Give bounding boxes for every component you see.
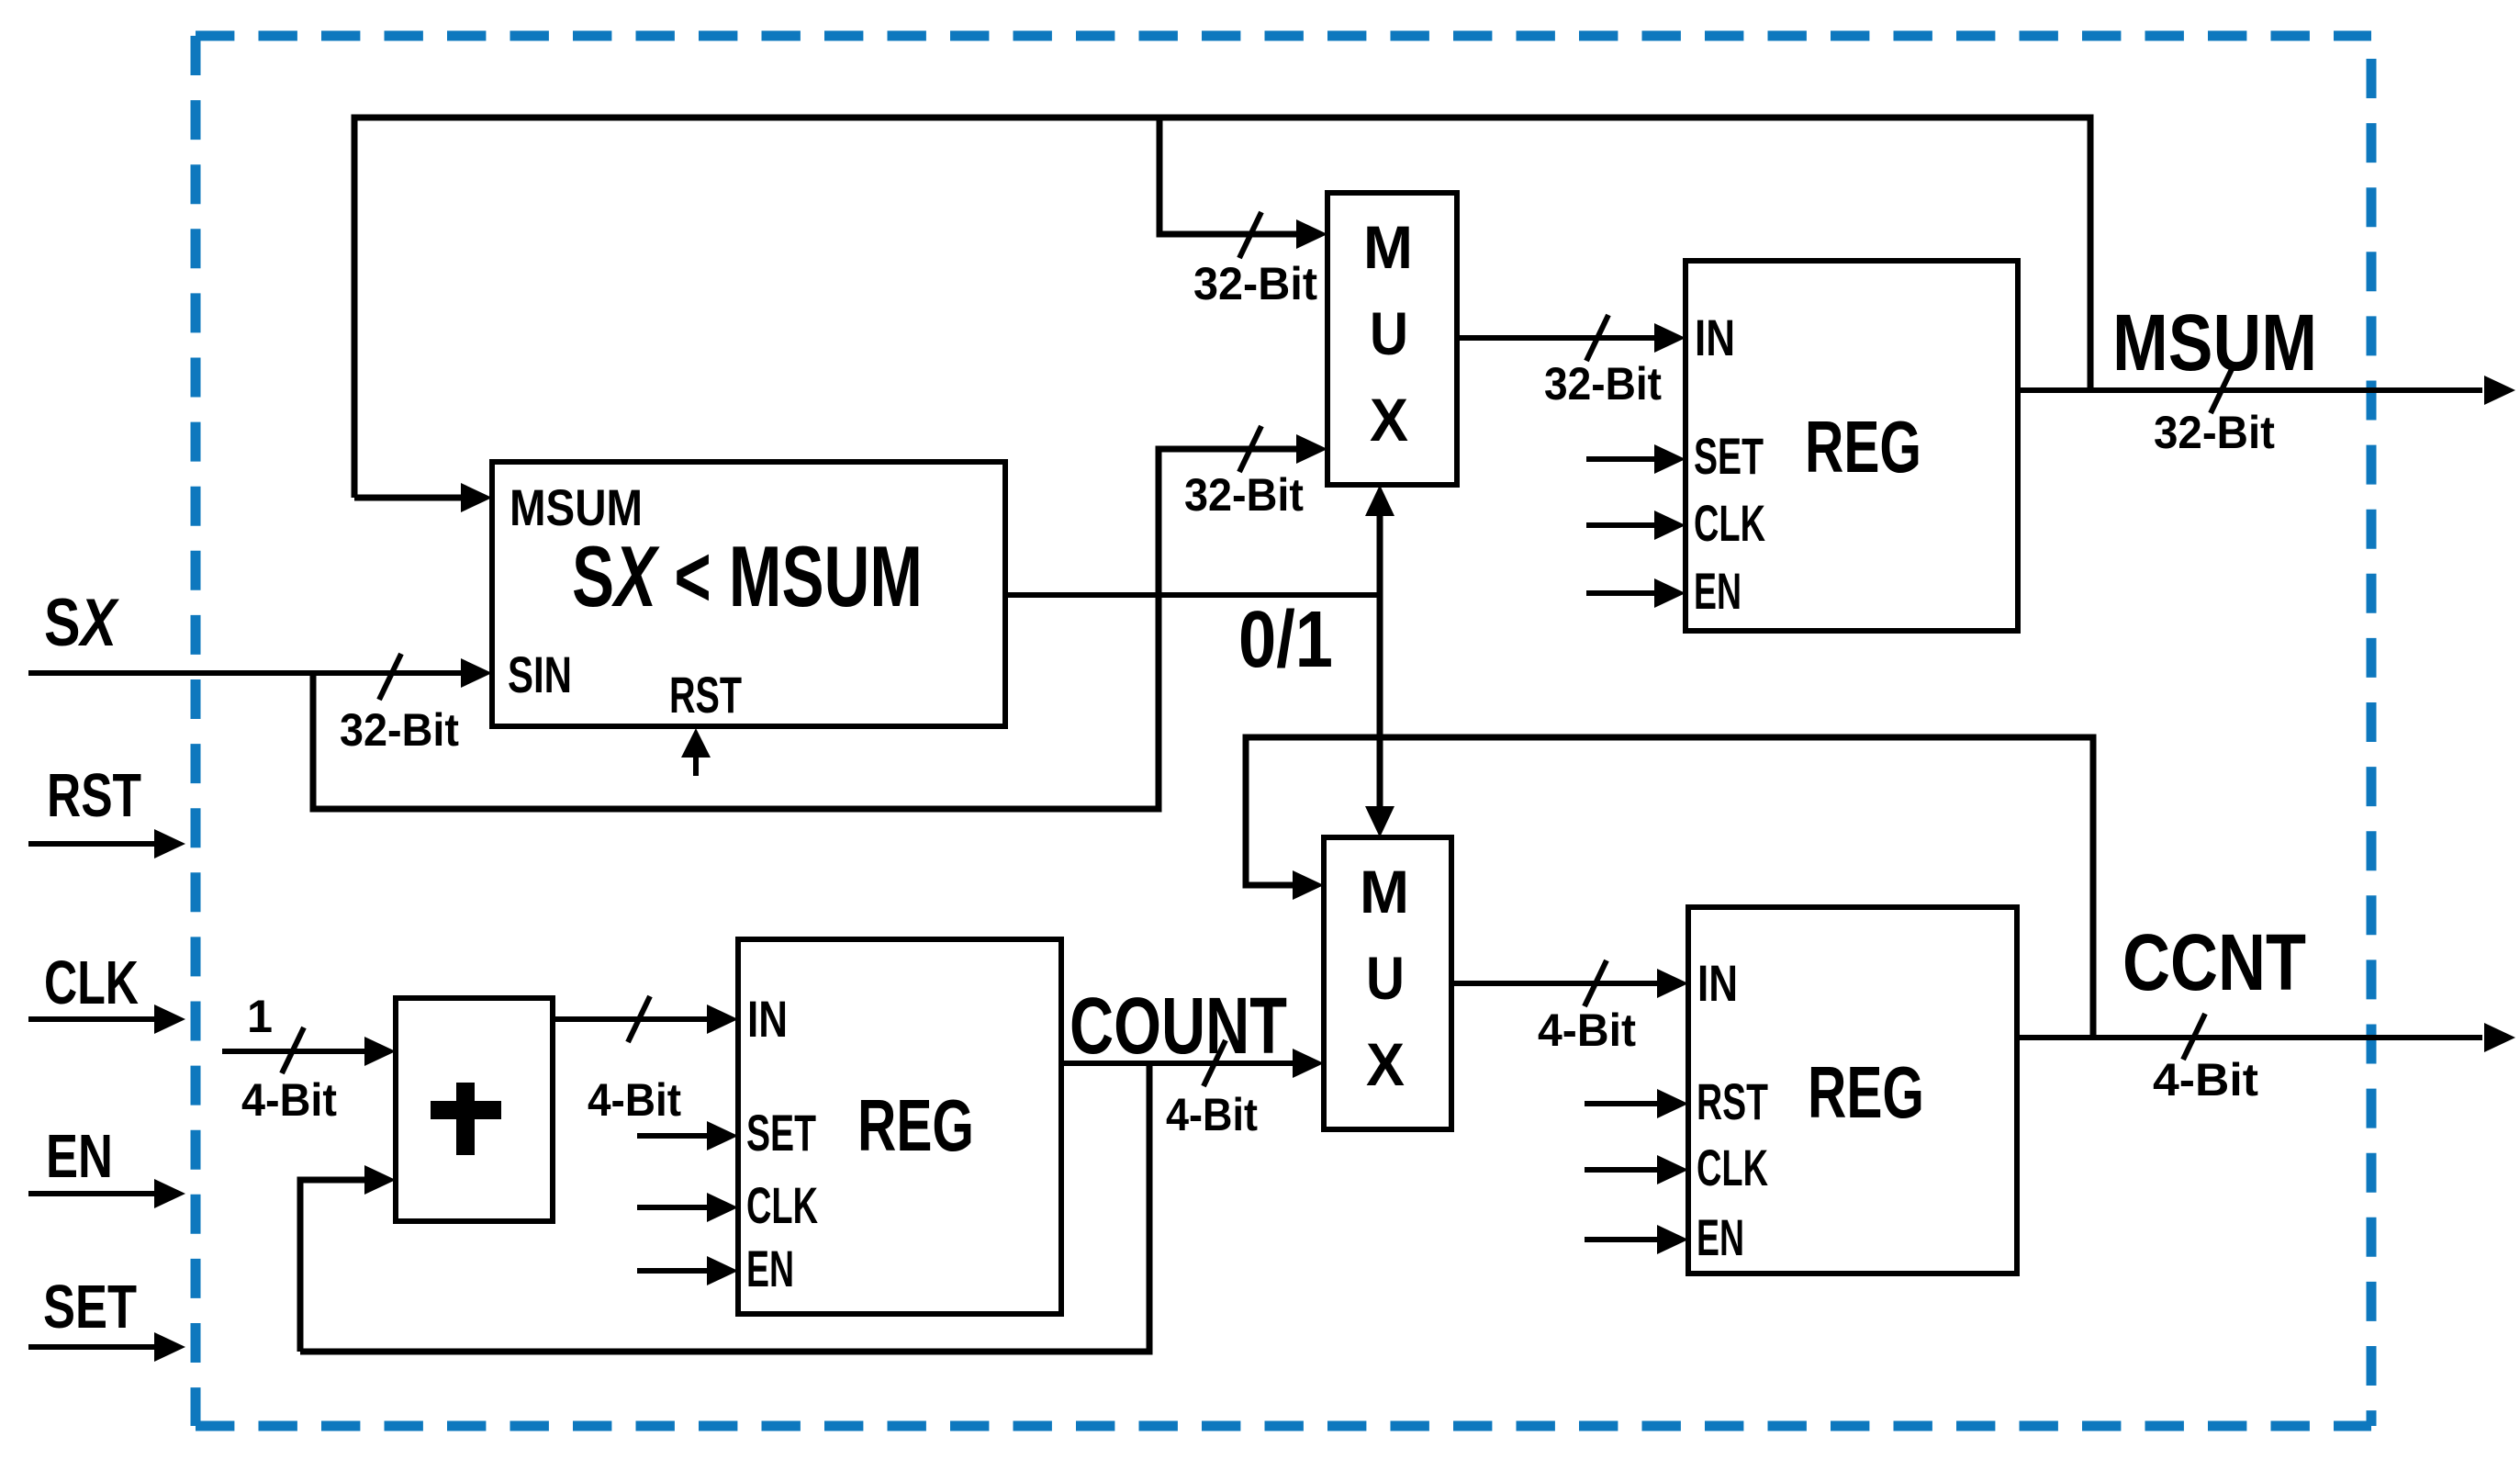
MUX2 output wire to REG3 IN bbox=[1451, 981, 1659, 986]
REG3 EN control arrow bbox=[1585, 1237, 1659, 1242]
svg-text:SET: SET bbox=[43, 1273, 137, 1341]
slash: SX bus width bbox=[379, 654, 401, 700]
svg-text:X: X bbox=[1366, 1030, 1405, 1098]
svg-text:RST: RST bbox=[1697, 1072, 1768, 1130]
slash: adder in bus width bbox=[282, 1027, 304, 1073]
input RST arrow bbox=[28, 841, 156, 847]
slash: MSUM out bus width bbox=[2211, 367, 2233, 413]
svg-text:M: M bbox=[1360, 858, 1409, 926]
svg-text:32-Bit: 32-Bit bbox=[1184, 469, 1304, 521]
svg-text:M: M bbox=[1363, 213, 1413, 281]
svg-text:SX < MSUM: SX < MSUM bbox=[572, 528, 923, 624]
svg-text:SET: SET bbox=[1694, 427, 1764, 485]
svg-text:EN: EN bbox=[1694, 562, 1742, 620]
svg-text:U: U bbox=[1366, 944, 1405, 1012]
svg-text:4-Bit: 4-Bit bbox=[241, 1074, 337, 1126]
CCNT feedback wire to MUX2 in1 bbox=[1246, 737, 2093, 1038]
REG3 CLK control arrow bbox=[1585, 1167, 1659, 1173]
svg-text:CLK: CLK bbox=[1694, 494, 1765, 552]
MUX U5 box (lower) bbox=[1324, 837, 1451, 1129]
input CLK arrow bbox=[28, 1016, 156, 1022]
select line to both MUXes bbox=[1377, 512, 1383, 810]
slash: MUX1 in2 bus width bbox=[1239, 426, 1261, 472]
REG1 CLK control arrow bbox=[1586, 522, 1656, 528]
svg-text:RST: RST bbox=[47, 761, 141, 830]
adder input 1 wire bbox=[222, 1049, 366, 1054]
svg-text:32-Bit: 32-Bit bbox=[2154, 407, 2275, 458]
svg-text:EN: EN bbox=[746, 1240, 794, 1297]
MUX1 output wire to REG1 IN bbox=[1457, 335, 1656, 341]
slash: CCNT bus width bbox=[2183, 1014, 2205, 1060]
svg-text:32-Bit: 32-Bit bbox=[1193, 258, 1317, 309]
REG2 CLK control arrow bbox=[637, 1205, 709, 1210]
svg-text:32-Bit: 32-Bit bbox=[1544, 358, 1662, 410]
svg-text:IN: IN bbox=[747, 990, 788, 1048]
svg-text:COUNT: COUNT bbox=[1070, 982, 1287, 1071]
input EN arrow bbox=[28, 1191, 156, 1196]
svg-text:CLK: CLK bbox=[1697, 1139, 1768, 1196]
svg-text:4-Bit: 4-Bit bbox=[1166, 1089, 1258, 1140]
MUX U2 box (upper) bbox=[1327, 193, 1457, 485]
slash: MUX2 out bus width bbox=[1585, 960, 1607, 1006]
comparator output wire bbox=[1005, 592, 1380, 598]
adder feedback input wire bbox=[300, 1180, 366, 1352]
comparator RST up arrow bbox=[693, 753, 699, 776]
plus symbol bbox=[431, 1083, 501, 1155]
svg-text:RST: RST bbox=[669, 666, 742, 724]
svg-text:IN: IN bbox=[1697, 954, 1738, 1012]
COUNT feedback wire to adder bbox=[300, 1063, 1149, 1352]
slash: COUNT bus width bbox=[1204, 1040, 1226, 1086]
svg-text:CLK: CLK bbox=[44, 948, 139, 1017]
MSUM output wire bbox=[2016, 387, 2482, 393]
svg-text:IN: IN bbox=[1695, 309, 1735, 366]
svg-text:SIN: SIN bbox=[508, 645, 572, 703]
wire: comparator MSUM input stub bbox=[354, 495, 465, 501]
svg-text:4-Bit: 4-Bit bbox=[588, 1074, 681, 1126]
svg-text:REG: REG bbox=[1805, 406, 1921, 488]
slash: adder out bus width bbox=[628, 996, 650, 1042]
svg-text:X: X bbox=[1370, 386, 1408, 454]
REG2 SET control arrow bbox=[637, 1133, 709, 1139]
svg-text:32-Bit: 32-Bit bbox=[340, 704, 459, 756]
svg-text:4-Bit: 4-Bit bbox=[1538, 1004, 1636, 1056]
REG U4 box (counter register) bbox=[738, 939, 1061, 1314]
adder output wire to REG2 IN bbox=[553, 1016, 709, 1022]
svg-text:0/1: 0/1 bbox=[1238, 595, 1333, 684]
svg-text:REG: REG bbox=[1808, 1051, 1924, 1133]
adder U7 box bbox=[396, 998, 553, 1221]
svg-text:SX: SX bbox=[44, 586, 119, 660]
REG2 EN control arrow bbox=[637, 1268, 709, 1274]
svg-text:MSUM: MSUM bbox=[2112, 298, 2317, 387]
CCNT output wire bbox=[2017, 1035, 2482, 1040]
REG3 RST control arrow bbox=[1585, 1101, 1659, 1106]
svg-text:U: U bbox=[1370, 299, 1408, 367]
REG1 EN control arrow bbox=[1586, 590, 1656, 596]
comparator U1 box bbox=[492, 462, 1005, 726]
svg-text:SET: SET bbox=[746, 1104, 816, 1162]
slash: MUX1 out bus width bbox=[1586, 315, 1608, 361]
input SET arrow bbox=[28, 1344, 156, 1350]
svg-text:EN: EN bbox=[46, 1122, 113, 1191]
wire: MSUM feedback top loop bbox=[354, 118, 2090, 498]
wire: SX branch down and run to MUX1 input 2 bbox=[313, 449, 1298, 809]
REG U6 box (CCNT register) bbox=[1688, 907, 2017, 1274]
input SX wire bbox=[28, 670, 465, 676]
svg-text:CLK: CLK bbox=[746, 1176, 818, 1234]
svg-text:CCNT: CCNT bbox=[2122, 918, 2306, 1007]
REG1 SET control arrow bbox=[1586, 456, 1656, 462]
svg-text:4-Bit: 4-Bit bbox=[2153, 1054, 2258, 1105]
slash: MUX1 in1 bus width bbox=[1239, 212, 1261, 258]
svg-text:REG: REG bbox=[857, 1084, 974, 1166]
svg-text:1: 1 bbox=[247, 991, 273, 1042]
svg-text:EN: EN bbox=[1697, 1208, 1744, 1266]
COUNT wire REG2 out to MUX2 in2 bbox=[1061, 1061, 1294, 1066]
REG U3 box (MSUM register) bbox=[1686, 261, 2018, 631]
wire: branch to MUX1 input 1 bbox=[1159, 118, 1298, 234]
